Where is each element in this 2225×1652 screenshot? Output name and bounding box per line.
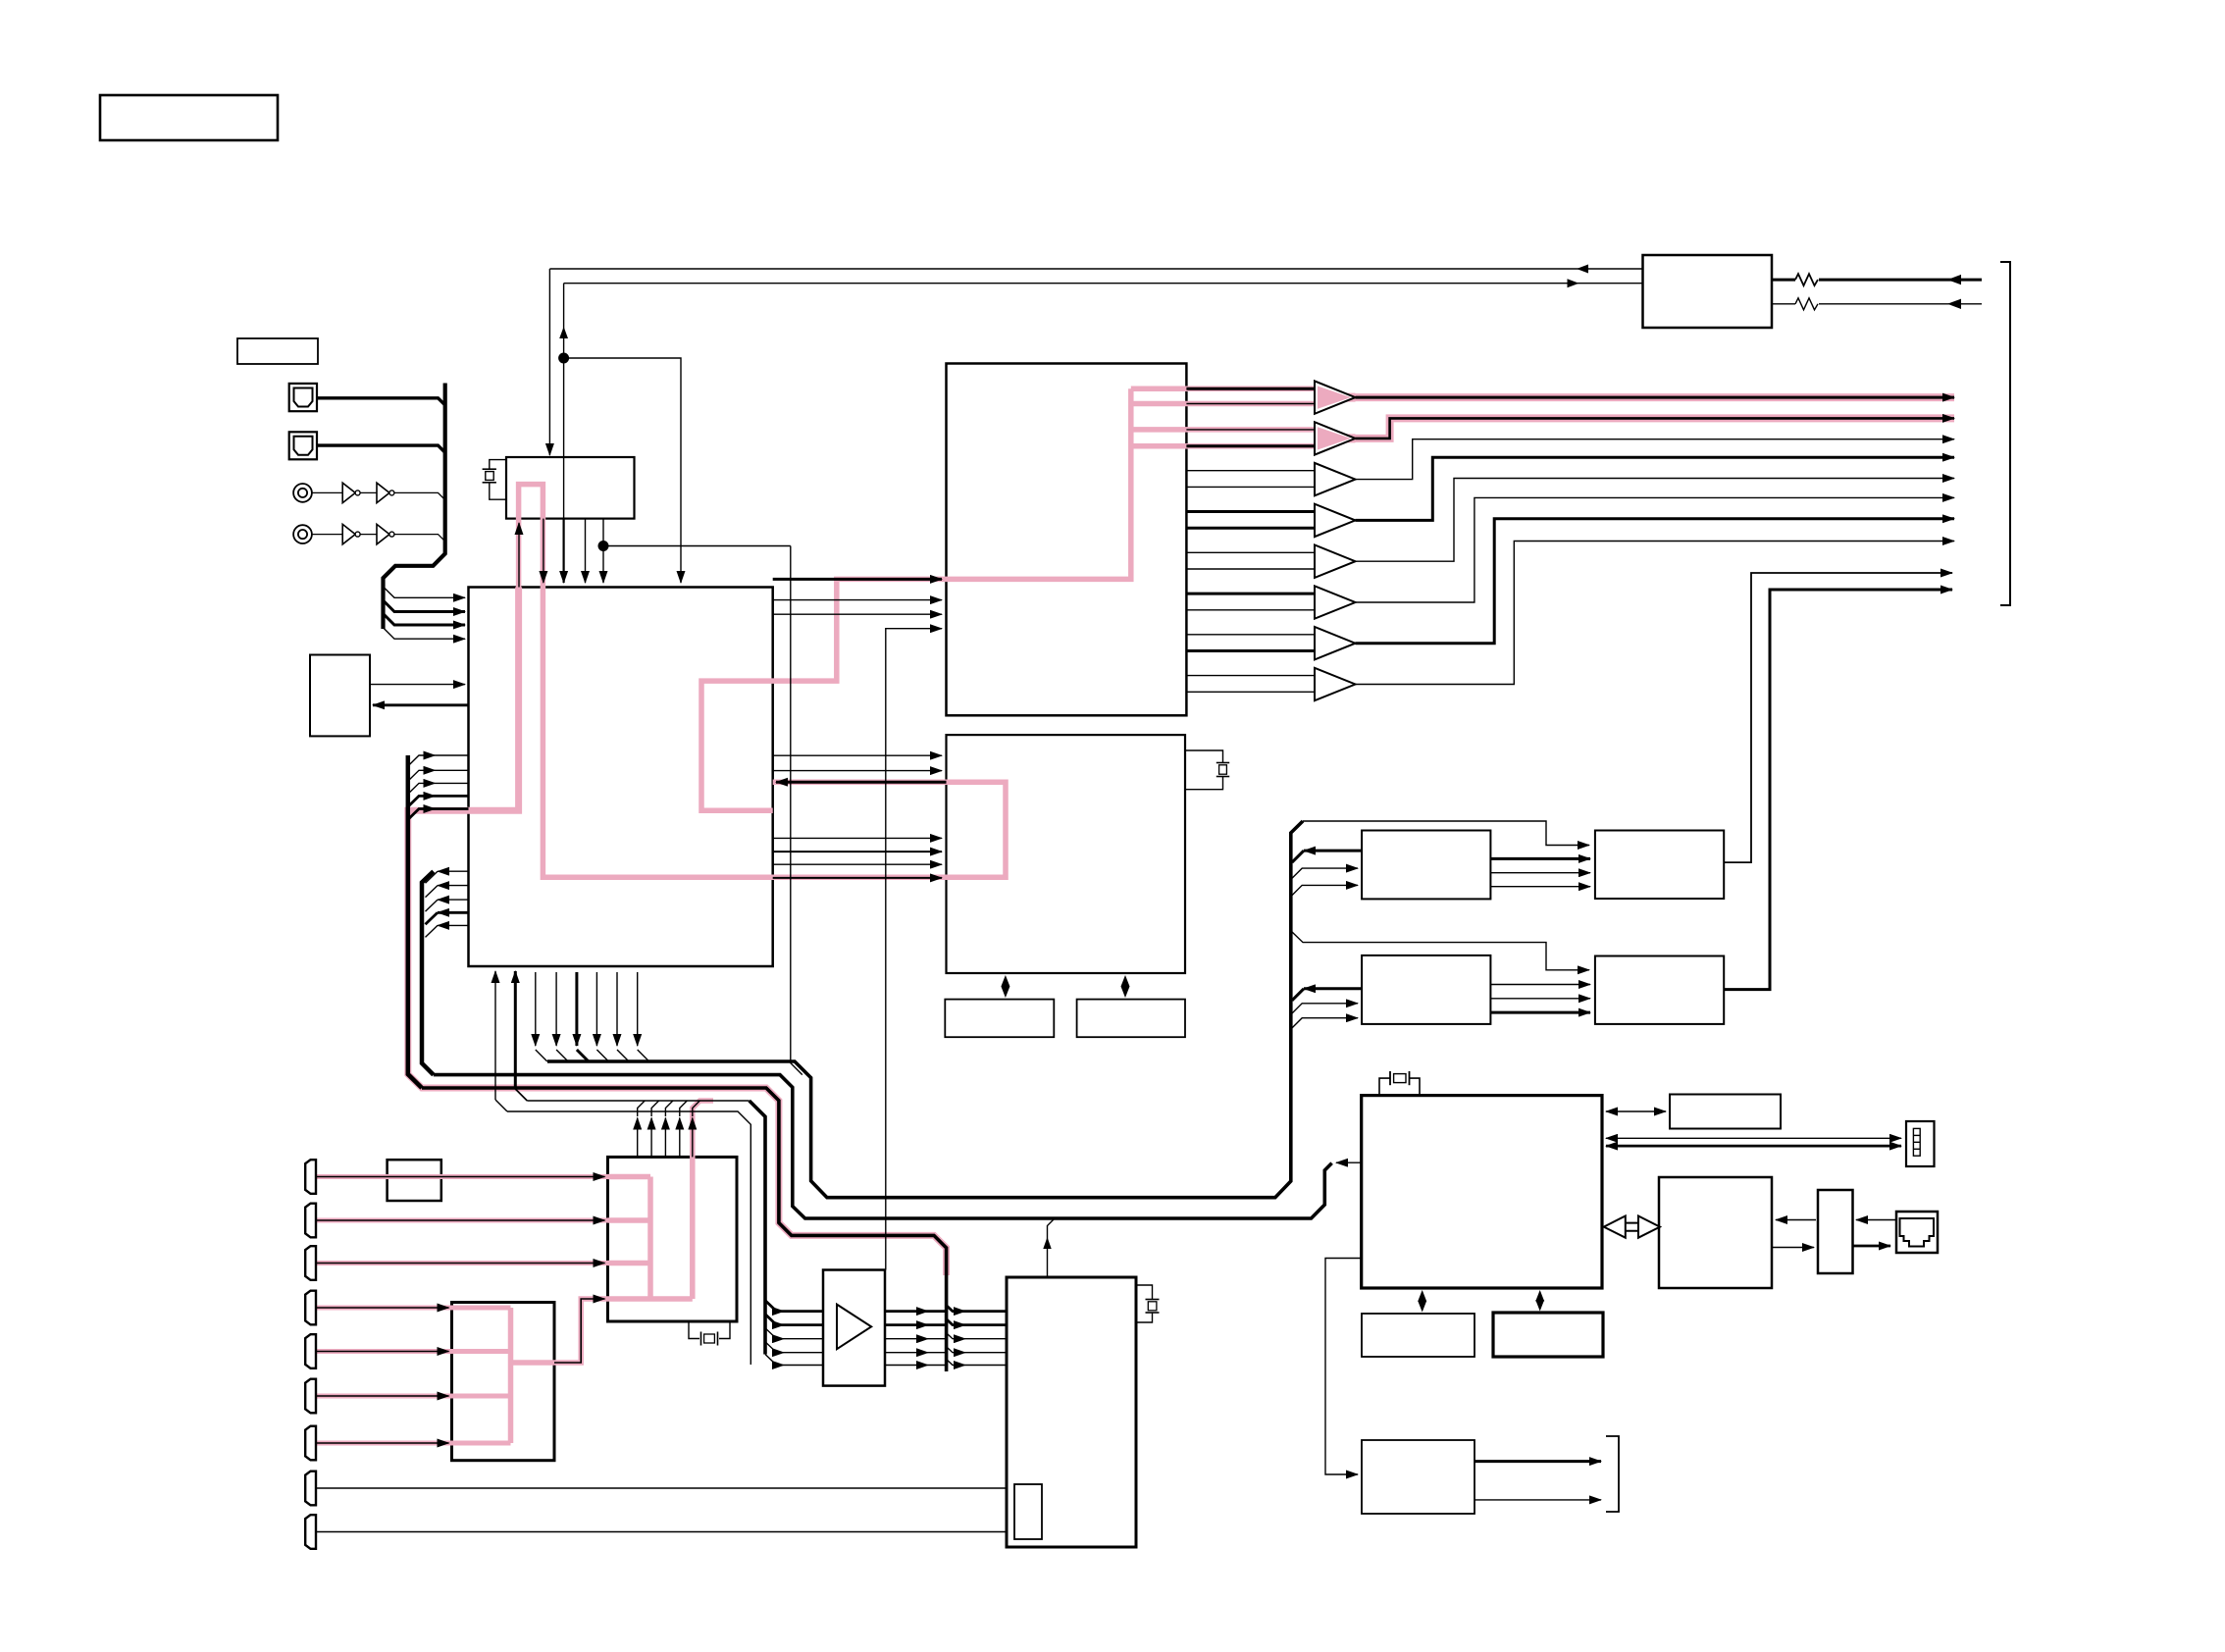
wire controller to DSP 4 xyxy=(773,851,942,852)
pink video digital out riser xyxy=(693,1101,713,1299)
line driver to jack wire xyxy=(1853,1245,1891,1248)
resistor R1 xyxy=(1795,274,1818,285)
pink video input IC merge bus xyxy=(647,1177,653,1300)
pink fill inside buffer 2 xyxy=(1318,427,1351,449)
highway bus line H4 thin over video IC xyxy=(527,1100,749,1102)
optical connector J1 inner xyxy=(294,388,313,407)
amp output 2 xyxy=(885,1323,928,1326)
pink path controller to DAC and line out xyxy=(701,388,1131,810)
bar B stub 1 xyxy=(438,870,469,872)
highway bus line H5 thin xyxy=(507,1111,750,1365)
pink video in 2 xyxy=(315,1218,608,1223)
video in 4 line xyxy=(316,1307,449,1309)
pink path clock loop in clock generator xyxy=(519,485,543,588)
crystal X3 plate left xyxy=(1389,1071,1391,1085)
pin 5 bevel to H1 xyxy=(577,1050,589,1061)
pink video in 6 xyxy=(315,1394,511,1399)
pink video in 3 xyxy=(315,1261,608,1265)
bus to SDRAM ctrl1 line 1 xyxy=(1291,868,1358,879)
resistor R2 xyxy=(1795,298,1818,310)
DAC pin T8 lower xyxy=(1186,691,1315,693)
crystal X1 bracket top xyxy=(490,460,506,470)
DAC pin T5 upper xyxy=(1186,551,1315,553)
AV connector J5 xyxy=(305,1160,316,1194)
servo bar to driver 3 tail xyxy=(965,1338,1007,1340)
bar A stub 2 tail xyxy=(436,769,469,771)
audio line out 6 xyxy=(1356,497,1955,602)
pink AV switch merge bus xyxy=(508,1308,514,1443)
SDRAM 3 box xyxy=(1362,1314,1475,1357)
wire clock out D to controller xyxy=(602,519,604,583)
servo bar to driver 2 arrow xyxy=(947,1319,965,1325)
buffer amp 2 xyxy=(1315,422,1356,454)
system controller IC (big box) xyxy=(469,588,773,967)
SDRAM ctrl1 to SDRAM1 line 1 xyxy=(1490,857,1590,860)
front panel bus bar B xyxy=(422,871,434,1074)
amp buffer triangle xyxy=(837,1305,871,1350)
bar B stub 5 bevel xyxy=(426,925,439,937)
label box (digital in group) xyxy=(237,338,318,364)
SDRAM bus row2 feed xyxy=(1291,931,1589,970)
pink path from controller output down front bus to servo driver xyxy=(408,588,947,1276)
pink video pin stub 1 xyxy=(608,1174,651,1180)
SDRAM ctrl2 to SDRAM2 line 2 xyxy=(1490,998,1590,1000)
SDRAM ctrl2 bus bevel xyxy=(1292,989,1304,1001)
flash 2 box (thick) xyxy=(1493,1313,1603,1357)
DIP switch divider 1 xyxy=(1913,1134,1920,1136)
SDRAM ctrl2 to SDRAM2 line 3 xyxy=(1490,1011,1590,1014)
modular jack box xyxy=(1896,1212,1938,1253)
pink fill inside buffer 1 xyxy=(1318,387,1351,409)
crystal X2 plate bottom xyxy=(1216,776,1229,778)
RAM B bidirectional link xyxy=(1124,984,1126,989)
pink video pin stub 3 xyxy=(608,1261,651,1266)
pink audio line out 1 xyxy=(1356,393,1955,401)
title block box xyxy=(100,95,278,140)
audio line out 5 xyxy=(1356,479,1955,562)
audio DSP box xyxy=(947,735,1186,973)
wire digital bus to controller 2 xyxy=(384,600,466,612)
coax connector J4 outer ring xyxy=(293,525,312,543)
pink through buffer 2 xyxy=(1315,434,1356,442)
video out riser 2 xyxy=(650,1118,652,1158)
DAC pin T6 lower xyxy=(1186,609,1315,611)
DIP switch box xyxy=(1906,1121,1935,1166)
amp output 1 tail xyxy=(928,1310,947,1313)
decoder drop wire to RF amp xyxy=(1325,1259,1362,1475)
decoder to DIP switch line 1 xyxy=(1606,1137,1901,1139)
wire DSP to controller ack xyxy=(776,781,947,784)
speaker line 1 xyxy=(1819,279,1982,282)
BOXES xyxy=(100,95,1938,1547)
optical connector J1 outer xyxy=(289,384,317,411)
controller bottom pin 7 xyxy=(616,972,618,1046)
pink video in 1 xyxy=(315,1174,608,1179)
arrow speaker line 2 xyxy=(1947,299,1961,309)
buffer amp 3 xyxy=(1315,463,1356,495)
pink path controller to DSP window loop xyxy=(543,588,1006,878)
SDRAM 1 box xyxy=(1595,831,1724,900)
amp input 1 tail xyxy=(784,1310,823,1313)
inverter U2a bubble xyxy=(355,532,360,537)
wire digital bus to controller 4 xyxy=(384,628,466,640)
SDRAM 2 box xyxy=(1595,956,1724,1024)
pin 7 bevel to H1 xyxy=(617,1050,629,1061)
coax connector J3 inner ring xyxy=(298,489,307,497)
line driver box xyxy=(1818,1190,1853,1273)
servo bar to driver 3 arrow xyxy=(947,1333,965,1339)
decoder to flash bidirectional xyxy=(1606,1110,1666,1112)
bar A stub 4 arrow part xyxy=(408,796,436,806)
crystal X1 plate top xyxy=(483,468,496,470)
servo bar to driver 4 arrow xyxy=(947,1347,965,1353)
SDRAM ctrl2 to SDRAM2 line 1 xyxy=(1490,984,1590,986)
arrow on feedback line upper xyxy=(1577,265,1588,274)
bar B stub 4 xyxy=(438,911,469,914)
DAC pin T7 lower xyxy=(1186,649,1315,652)
servo branch from H2 xyxy=(1048,1218,1056,1277)
wire controller to DAC 1 xyxy=(773,578,942,581)
crystal X2 body xyxy=(1219,765,1227,774)
amp output 5 xyxy=(885,1365,928,1367)
decoder to DIP switch line 2 xyxy=(1606,1145,1901,1148)
SDRAM controller 1 box xyxy=(1362,831,1490,900)
controller bottom pin 6 xyxy=(595,972,597,1046)
bar A stub 3 tail xyxy=(436,782,469,784)
feedback line lower xyxy=(564,283,1643,284)
bar B stub 5 xyxy=(438,924,469,926)
DAC pin T1 upper xyxy=(1186,387,1315,390)
PINK HIGHLIGHT PATHS xyxy=(315,388,1954,1443)
pin 3 bevel to H1 xyxy=(536,1050,547,1061)
DAC pin T3 lower xyxy=(1186,486,1315,488)
power amp driver box (top right) xyxy=(1643,255,1773,328)
video out riser 1 xyxy=(637,1118,639,1158)
video out riser 4 xyxy=(679,1118,681,1158)
speaker line 2 stub xyxy=(1772,303,1795,305)
digital input bus xyxy=(384,384,445,630)
audio in 8 line xyxy=(316,1487,1007,1489)
DAC pin T2 lower xyxy=(1186,444,1315,447)
amp output 3 tail xyxy=(928,1338,947,1340)
crystal X5 bracket top xyxy=(1136,1285,1153,1300)
buffer amp 7 xyxy=(1315,627,1356,659)
controller bottom pin 2 riser xyxy=(514,971,517,1089)
SDRAM controller 2 box xyxy=(1362,955,1490,1024)
crystal X2 bracket bottom xyxy=(1185,777,1223,790)
servo bar to driver 5 tail xyxy=(965,1365,1007,1367)
buffer amp 4 xyxy=(1315,504,1356,537)
wire coax in 2 segment a xyxy=(312,534,342,536)
wire clock return vertical xyxy=(563,284,565,519)
wire clock out B to controller xyxy=(562,519,564,583)
video in 2 line xyxy=(316,1219,605,1221)
wire clock out A to controller xyxy=(543,519,544,583)
arrow up on clock return xyxy=(559,327,568,338)
bar A stub 3 arrow part xyxy=(408,783,436,794)
arrow speaker line 1 xyxy=(1947,275,1961,284)
crystal X2 bracket top xyxy=(1185,750,1223,763)
wire EEPROM data in xyxy=(373,703,469,706)
highway bus line H1 to SDRAM riser xyxy=(547,821,1303,1198)
amp input 4 tail xyxy=(784,1352,823,1354)
SDRAM ctrl1 bus bevel xyxy=(1292,851,1304,862)
DSP RAM A box xyxy=(945,1000,1054,1038)
wire controller to DAC 3 xyxy=(773,613,942,615)
audio line out 2 xyxy=(1356,418,1955,439)
interface bridge IC box xyxy=(1659,1177,1772,1288)
buffer amp 5 xyxy=(1315,545,1356,578)
crystal X5 plate top xyxy=(1146,1299,1160,1301)
RAM A bidirectional link xyxy=(1005,984,1007,989)
pink video pin stub 2 xyxy=(608,1217,651,1223)
wire EEPROM data out xyxy=(370,684,465,686)
modular jack inner contour xyxy=(1900,1218,1935,1247)
arrow on feedback line lower xyxy=(1568,279,1579,287)
crystal X3 bracket left xyxy=(1379,1078,1390,1096)
DIP switch divider 2 xyxy=(1913,1141,1920,1143)
AV connector J8 xyxy=(305,1291,316,1325)
audio DAC box xyxy=(947,364,1187,716)
inverter U2b bubble xyxy=(389,532,394,537)
wire coax in 2 segment c xyxy=(394,535,445,542)
decoder bus arrow line xyxy=(1336,1162,1362,1163)
bar B stub 2 xyxy=(438,885,469,887)
wire controller to DSP 5 xyxy=(773,863,942,865)
controller bottom pin 1 riser xyxy=(494,971,496,1100)
SDRAM ctrl1 to SDRAM1 line 2 xyxy=(1490,872,1590,874)
bar B stub 3 xyxy=(438,899,469,901)
pink video in 5 xyxy=(315,1349,511,1354)
amp input 5 arrow xyxy=(765,1355,784,1366)
crystal X3 body xyxy=(1394,1074,1406,1083)
audio line out 7 xyxy=(1356,519,1955,644)
wire clock branch to bus riser xyxy=(603,545,791,547)
amp input 4 arrow xyxy=(765,1342,784,1353)
inverter U1a bubble xyxy=(355,490,360,495)
controller bottom pin 4 xyxy=(555,972,557,1046)
AV switch output wire xyxy=(554,1299,605,1363)
RF amp output 1 xyxy=(1475,1460,1601,1463)
wire optical in 1 to bus xyxy=(317,398,445,405)
bus to SDRAM ctrl2 line 1 xyxy=(1291,1004,1358,1014)
bus to SDRAM ctrl1 line 2 xyxy=(1291,885,1358,896)
junction dot clock out D xyxy=(598,541,609,551)
RF amp box xyxy=(1362,1440,1475,1514)
jack to line driver wire xyxy=(1856,1219,1896,1221)
AV connector J6 xyxy=(305,1204,316,1238)
AV connector J9 xyxy=(305,1334,316,1368)
inverter U1b triangle xyxy=(377,483,389,502)
audio line out 9 xyxy=(1724,573,1952,862)
amp input 3 tail xyxy=(784,1338,823,1340)
wire coax in 1 segment c xyxy=(394,492,445,499)
controller bottom pin 3 xyxy=(535,972,537,1046)
crystal X1 body xyxy=(486,472,493,481)
SDRAM bus top line to SDRAM1 xyxy=(1303,821,1589,846)
clock generator IC xyxy=(506,457,635,519)
optical connector J2 inner xyxy=(294,437,313,455)
amp output 4 xyxy=(885,1352,928,1354)
bus to SDRAM ctrl2 line 2 xyxy=(1291,1018,1358,1029)
arrow up servo branch xyxy=(1043,1237,1051,1249)
fat bus arrow lower line xyxy=(1623,1230,1641,1232)
EEPROM box xyxy=(310,655,370,737)
bar A stub 4 tail xyxy=(436,795,469,798)
crystal X5 body xyxy=(1148,1302,1157,1311)
bridge to line driver wire xyxy=(1772,1247,1814,1249)
wire riser to DAC 4 xyxy=(886,629,942,1270)
controller bottom pin 8 xyxy=(637,972,639,1046)
pin 8 bevel to H1 xyxy=(638,1050,649,1061)
amp output 4 tail xyxy=(928,1352,947,1354)
video in 5 line xyxy=(316,1351,449,1353)
inverter U1a triangle xyxy=(342,483,355,502)
crystal X5 bracket bottom xyxy=(1136,1313,1153,1322)
audio line out 10 xyxy=(1725,590,1952,990)
DAC pin T4 lower xyxy=(1186,527,1315,530)
DIP switch pin column xyxy=(1913,1128,1920,1156)
DAC pin T7 upper xyxy=(1186,634,1315,636)
wire controller to DAC 2 xyxy=(773,599,942,601)
wire optical in 2 to bus xyxy=(317,445,445,452)
controller bottom pin 5 xyxy=(575,972,578,1046)
wire controller to DSP 6 xyxy=(773,877,942,879)
pink stub DAC out 1b xyxy=(1131,401,1315,407)
pink video in 4 xyxy=(315,1306,511,1311)
pink stub DAC out 2b xyxy=(1131,443,1315,449)
pink stub DAC out 1a xyxy=(1131,386,1315,391)
amp input 5 tail xyxy=(784,1365,823,1367)
DAC pin T5 lower xyxy=(1186,568,1315,570)
RF output bracket xyxy=(1606,1436,1619,1512)
bar A stub 2 arrow part xyxy=(408,770,436,781)
audio in 9 line xyxy=(316,1531,1007,1533)
SDRAM ctrl1 to SDRAM1 line 3 xyxy=(1490,886,1590,888)
wire coax in 1 segment b xyxy=(360,491,377,493)
pin 1 bevel to H5 xyxy=(495,1100,507,1111)
optical connector J2 outer xyxy=(289,432,317,459)
pink through buffer 1 xyxy=(1315,393,1356,402)
DIP switch divider 3 xyxy=(1913,1148,1920,1150)
front panel bus bar A xyxy=(408,755,422,1088)
crystal X4 plate left xyxy=(700,1332,702,1346)
AV switch box xyxy=(452,1303,555,1461)
SDRAM ctrl2 to bus arrow xyxy=(1304,987,1362,990)
pink audio line out 2 xyxy=(1356,418,1955,439)
DAC pin T6 upper xyxy=(1186,593,1315,595)
video in 1 line xyxy=(316,1176,605,1178)
wire clock out C to controller xyxy=(585,519,587,583)
servo bar to driver 4 tail xyxy=(965,1352,1007,1354)
crystal X3 bracket right xyxy=(1410,1078,1421,1096)
wire clock feed up from controller xyxy=(518,523,520,588)
RF amp output 2 xyxy=(1475,1499,1601,1501)
DSP RAM B box xyxy=(1077,1000,1185,1038)
line driver to bridge wire xyxy=(1776,1219,1816,1221)
inverter U1b bubble xyxy=(389,490,394,495)
SDRAM ctrl1 to bus arrow xyxy=(1304,850,1362,852)
audio line out 8 xyxy=(1356,542,1955,685)
bus riser down to highway xyxy=(791,546,802,1075)
DAC pin T2 upper xyxy=(1186,429,1315,431)
servo bar to driver 1 tail xyxy=(965,1310,1007,1313)
flash memory box xyxy=(1670,1095,1781,1129)
bar A stub 1 tail xyxy=(436,754,469,756)
buffer amp 8 xyxy=(1315,668,1356,700)
audio line out 1 xyxy=(1356,396,1955,399)
amp input 2 arrow xyxy=(765,1315,784,1325)
video in 3 line xyxy=(316,1263,605,1265)
pink video pin stub 4 xyxy=(608,1296,693,1302)
pin 2 bevel to H4 xyxy=(515,1089,527,1101)
bar A stub 1 arrow part xyxy=(408,755,436,766)
DAC pin T4 upper xyxy=(1186,510,1315,513)
decoder to flash2 bidirectional xyxy=(1539,1299,1541,1303)
AV connector J7 xyxy=(305,1246,316,1280)
video in 7 line xyxy=(316,1442,449,1444)
audio line out 4 xyxy=(1356,457,1955,520)
video out riser 5 xyxy=(692,1118,694,1158)
highway bus line H3 to servo bar xyxy=(422,1088,947,1371)
pink stub DAC out 2a xyxy=(1131,427,1315,433)
AV connector J13 xyxy=(305,1515,316,1549)
bar B stub 3 bevel xyxy=(426,900,439,911)
bar A stub 5 tail xyxy=(436,807,469,810)
bar A stub 5 arrow part xyxy=(408,809,436,820)
servo bar to driver 5 arrow xyxy=(947,1360,965,1366)
DAC pin T3 upper xyxy=(1186,470,1315,472)
fat bus arrow left head xyxy=(1604,1216,1626,1238)
servo driver IC box xyxy=(1007,1277,1136,1547)
amp output 3 xyxy=(885,1338,928,1340)
junction dot clock return xyxy=(558,353,569,364)
wire controller to DSP 2 xyxy=(773,770,942,772)
wire clock in vertical xyxy=(548,269,550,455)
inverter U2a triangle xyxy=(342,524,355,543)
AV connector J11 xyxy=(305,1426,316,1461)
wire clock branch to controller xyxy=(564,358,681,583)
bar B stub 4 bevel xyxy=(426,912,439,924)
servo bar to driver 2 tail xyxy=(965,1323,1007,1326)
bar B stub 2 bevel xyxy=(426,886,439,898)
amp output 5 tail xyxy=(928,1365,947,1367)
crystal X1 bracket bottom xyxy=(490,483,506,499)
crystal X1 plate bottom xyxy=(483,482,496,484)
AV connector J12 xyxy=(305,1471,316,1506)
back-end decoder IC box xyxy=(1362,1096,1602,1288)
INPUT CONNECTOR SYMBOLS xyxy=(289,384,394,1549)
crystal X5 plate bottom xyxy=(1146,1312,1160,1314)
DAC pin T8 upper xyxy=(1186,675,1315,677)
servo bar to driver 1 arrow xyxy=(947,1306,965,1312)
highway bus line H2 to decoder xyxy=(434,1075,1332,1218)
video in 6 line xyxy=(316,1395,449,1397)
fat bus arrow upper line xyxy=(1623,1222,1641,1224)
bar B stub 1 bevel xyxy=(426,871,439,883)
inverter U2b triangle xyxy=(377,524,389,543)
coax connector J4 inner ring xyxy=(298,530,307,539)
video input IC box xyxy=(608,1157,738,1321)
amp output 1 xyxy=(885,1310,928,1313)
amp input 3 arrow xyxy=(765,1328,784,1339)
crystal X4 bracket right xyxy=(719,1321,730,1339)
driver sub-block box xyxy=(1014,1484,1042,1539)
buffer amp 6 xyxy=(1315,586,1356,618)
output group bracket xyxy=(2000,262,2010,605)
crystal X3 plate right xyxy=(1409,1071,1411,1085)
crystal X4 plate right xyxy=(717,1332,719,1346)
